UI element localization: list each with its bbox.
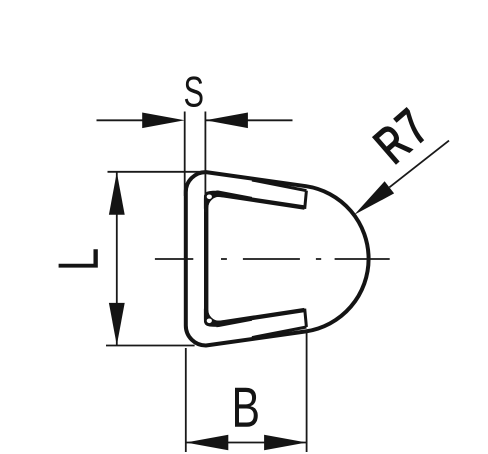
top-left inner corner bead <box>204 191 219 209</box>
arrowhead S left <box>142 113 185 129</box>
bottom-left corner bead highlight hole <box>207 319 212 324</box>
dimension line B <box>186 442 307 444</box>
dimension line S right segment <box>205 119 292 121</box>
arrowhead S right <box>205 113 248 129</box>
arrowhead R7 <box>354 181 394 215</box>
top-left corner bead highlight hole <box>207 195 212 200</box>
label B <box>235 388 258 427</box>
extension line L bottom <box>106 345 195 347</box>
leader line R7 <box>389 141 449 188</box>
outer contour of cap body <box>186 172 369 345</box>
extension line B left <box>185 348 187 452</box>
bottom corner bead blend wedge <box>217 319 253 328</box>
arrowhead L down <box>109 303 125 346</box>
dimension line L vertical <box>116 172 118 345</box>
label L (rotated) <box>59 249 98 267</box>
bottom-left inner corner bead <box>204 309 219 327</box>
arrowhead L up <box>109 172 125 215</box>
arrowhead B right <box>264 435 307 451</box>
centerline (dash-dot axis) <box>155 258 390 260</box>
extension line L top <box>108 171 206 173</box>
label S <box>185 76 203 107</box>
extension line S left <box>184 112 186 197</box>
arrowhead B left <box>186 435 229 451</box>
extension line B right <box>306 330 308 452</box>
rim edge line bottom <box>252 327 306 338</box>
inner cavity contour <box>206 195 304 323</box>
wall end step top <box>305 191 307 209</box>
label R7 (rotated) <box>373 108 423 164</box>
wall end step bottom <box>305 309 307 327</box>
extension line S right <box>204 112 206 213</box>
rim edge line top <box>252 180 306 191</box>
top corner bead blend wedge <box>217 190 253 199</box>
dimension line S left segment <box>97 119 146 121</box>
